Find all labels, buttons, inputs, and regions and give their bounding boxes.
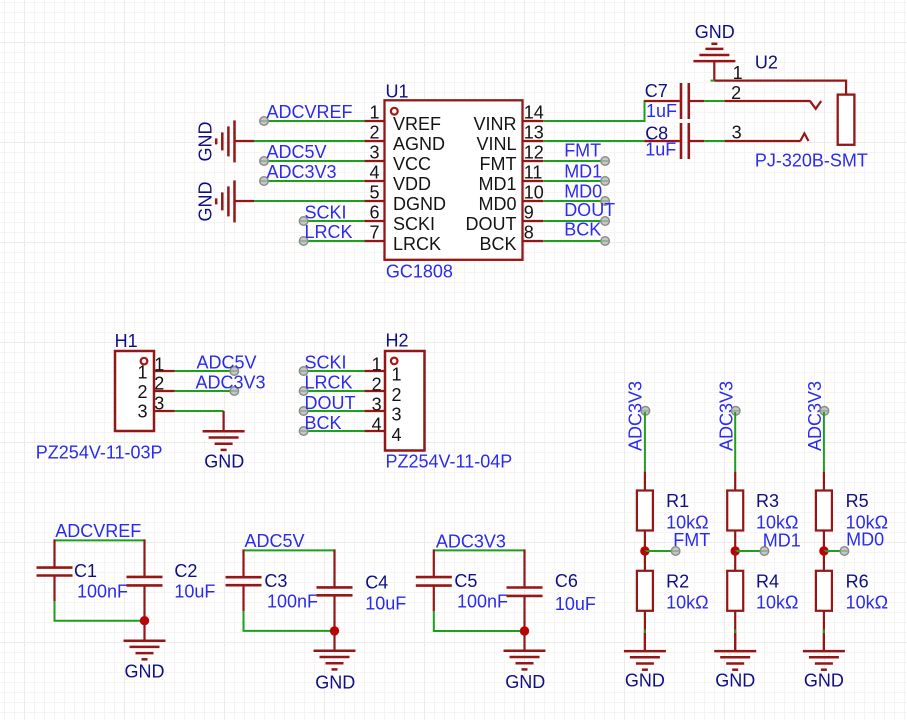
capacitor C4 [317, 549, 353, 631]
svg-text:3: 3 [369, 143, 379, 163]
svg-text:2: 2 [154, 374, 164, 394]
wire U1 pin 14 to C7 [543, 100, 644, 121]
svg-text:10kΩ: 10kΩ [756, 512, 798, 532]
net label MD0 (divider) [846, 530, 884, 550]
svg-text:MD1: MD1 [763, 530, 801, 550]
svg-text:GND: GND [804, 671, 844, 691]
svg-text:100nF: 100nF [77, 581, 128, 601]
U1 pin 6 SCKI [364, 203, 435, 234]
svg-text:2: 2 [372, 374, 382, 394]
resistor R1 [637, 472, 653, 551]
wire FMT tap [645, 550, 673, 552]
net label ADC3V3 (C5 group) [436, 532, 506, 552]
node dot MD0 tap [840, 547, 849, 556]
resistor R6 [816, 551, 832, 651]
svg-text:SCKI: SCKI [305, 202, 347, 222]
H2 pin 4 [364, 414, 385, 434]
header H1 body [115, 351, 154, 431]
svg-text:1uF: 1uF [646, 101, 677, 121]
svg-text:PZ254V-11-04P: PZ254V-11-04P [386, 452, 513, 472]
net label MD1 [564, 162, 602, 182]
wire segment R6 to GND [823, 630, 825, 634]
junction dot C5 group [520, 626, 529, 635]
value 100nF (C5) [457, 591, 508, 611]
wire LRCK to U1 pin 7 [304, 240, 365, 242]
svg-text:FMT: FMT [673, 530, 710, 550]
svg-text:C3: C3 [264, 571, 287, 591]
junction dot C1 group [140, 616, 149, 625]
H2 inside pin numbers [391, 364, 401, 445]
wire H1 pin 3 to GND [175, 410, 224, 412]
capacitor C2 [127, 539, 163, 620]
designator U2 [755, 53, 778, 73]
U1 pin 8 BCK [479, 223, 543, 254]
net label ADC5V (C3 group) [245, 531, 305, 551]
wire U1 pin 11 MD1 [543, 180, 601, 182]
svg-text:6: 6 [369, 203, 379, 223]
svg-text:ADCVREF: ADCVREF [55, 521, 141, 541]
svg-text:FMT: FMT [564, 141, 601, 161]
capacitor C3 [226, 549, 262, 611]
value 10k ohm (R4) [756, 592, 798, 612]
svg-text:10kΩ: 10kΩ [666, 592, 708, 612]
designator R2 [666, 571, 689, 591]
net label ADCVREF (C1 group) [55, 521, 141, 541]
value 10k ohm (R3) [756, 512, 798, 532]
wire ADC5V to U1 pin 3 [264, 160, 364, 162]
value GC1808 [386, 261, 453, 281]
svg-text:ADC5V: ADC5V [197, 353, 257, 373]
net label FMT [564, 141, 601, 161]
net label ADC3V3 [267, 162, 337, 182]
node dot ADC5V [260, 157, 269, 166]
svg-text:SCKI: SCKI [305, 353, 347, 373]
svg-text:GND: GND [196, 122, 216, 162]
net label MD1 (divider) [763, 530, 801, 550]
wire ADC3V3 to U1 pin 4 [264, 180, 364, 182]
net label ADC5V (H1) [197, 353, 257, 373]
svg-text:BCK: BCK [305, 413, 342, 433]
svg-text:ADC3V3: ADC3V3 [196, 373, 266, 393]
U1 pin 3 VCC [364, 143, 431, 174]
svg-text:1: 1 [733, 63, 743, 83]
net label ADC3V3 (R5 column, rotated) [805, 381, 825, 451]
node dot LRCK (H2) [299, 387, 308, 396]
node dot BCK [601, 237, 610, 246]
svg-text:1: 1 [391, 364, 401, 384]
svg-text:ADC3V3: ADC3V3 [436, 532, 506, 552]
svg-text:10kΩ: 10kΩ [756, 592, 798, 612]
wire ADC3V3 to R3 [734, 412, 736, 472]
svg-text:10: 10 [524, 183, 544, 203]
svg-text:VREF: VREF [393, 114, 441, 134]
node dot ADC3V3 (R3 column) [731, 407, 740, 416]
node dot ADC3V3 (R5 column) [820, 407, 829, 416]
svg-text:C6: C6 [555, 571, 578, 591]
svg-text:14: 14 [524, 103, 544, 123]
svg-text:13: 13 [524, 123, 544, 143]
designator C8 [645, 124, 668, 144]
node dot FMT tap [671, 547, 680, 556]
node dot ADC5V (H1) [230, 367, 239, 376]
node dot ADCVREF [260, 117, 269, 126]
capacitor C1 [37, 539, 73, 601]
svg-text:R2: R2 [666, 571, 689, 591]
H1 pin 3 [154, 393, 175, 413]
svg-text:3: 3 [154, 393, 164, 413]
designator U1 [386, 82, 409, 102]
designator C3 [264, 571, 287, 591]
svg-text:1: 1 [154, 354, 164, 374]
net label ADC3V3 (R3 column, rotated) [716, 381, 736, 451]
header H2 body [385, 351, 425, 451]
wire segment R2 to GND [644, 630, 646, 634]
audio jack U2 body [838, 95, 855, 145]
svg-text:ADC3V3: ADC3V3 [626, 381, 646, 451]
designator C2 [174, 561, 197, 581]
svg-text:BCK: BCK [564, 220, 601, 240]
svg-text:GND: GND [505, 672, 545, 692]
designator C7 [645, 81, 668, 101]
wire U1 pin 10 MD0 [543, 200, 601, 202]
designator C5 [454, 571, 477, 591]
net label ADC3V3 (H1) [196, 373, 266, 393]
svg-text:5: 5 [369, 183, 379, 203]
U1 pin 9 DOUT [466, 203, 544, 234]
node dot MD1 [601, 177, 610, 186]
designator R1 [666, 491, 689, 511]
svg-text:U2: U2 [755, 53, 778, 73]
svg-text:GND: GND [625, 671, 665, 691]
ground flag H1 [203, 411, 245, 472]
net label LRCK [305, 222, 353, 242]
H2 pin 1 indicator circle [391, 358, 398, 365]
svg-text:2: 2 [369, 123, 379, 143]
net label ADCVREF [267, 102, 353, 122]
node dot SCKI (H2) [299, 367, 308, 376]
svg-text:100nF: 100nF [267, 591, 318, 611]
svg-text:3: 3 [372, 394, 382, 414]
H1 inside pin numbers [137, 362, 147, 421]
net label BCK [564, 220, 601, 240]
svg-text:ADC3V3: ADC3V3 [805, 381, 825, 451]
svg-text:10uF: 10uF [555, 594, 596, 614]
net label LRCK (H2) [305, 373, 353, 393]
svg-text:LRCK: LRCK [393, 234, 441, 254]
svg-text:DGND: DGND [393, 194, 446, 214]
ground flag C1 group [124, 621, 166, 682]
net label SCKI [305, 202, 347, 222]
U1 pin 4 VDD [364, 163, 431, 194]
svg-text:FMT: FMT [480, 154, 517, 174]
svg-text:C5: C5 [454, 571, 477, 591]
svg-text:SCKI: SCKI [393, 214, 435, 234]
svg-text:DOUT: DOUT [564, 200, 615, 220]
svg-text:10uF: 10uF [174, 581, 215, 601]
svg-text:1: 1 [369, 103, 379, 123]
svg-text:LRCK: LRCK [305, 222, 353, 242]
node dot BCK (H2) [299, 427, 308, 436]
ground flag above U2 [693, 22, 735, 81]
svg-text:9: 9 [524, 203, 534, 223]
wire U1 pin 9 DOUT [543, 220, 601, 222]
wire C8 to U2 pin 3 [704, 140, 724, 142]
capacitor C8 [644, 123, 704, 159]
svg-text:7: 7 [369, 223, 379, 243]
net label BCK (H2) [305, 413, 342, 433]
svg-text:ADC3V3: ADC3V3 [716, 381, 736, 451]
svg-text:3: 3 [391, 405, 401, 425]
value 10k ohm (R2) [666, 592, 708, 612]
node dot MD1 tap [760, 547, 769, 556]
wire ADC3V3 to R5 [823, 412, 825, 472]
ground flag R4 [714, 633, 756, 691]
svg-text:LRCK: LRCK [305, 373, 353, 393]
value 10uF (C6) [555, 594, 596, 614]
wire U1 pin 12 FMT [543, 160, 601, 162]
value 100nF (C3) [267, 591, 318, 611]
svg-text:3: 3 [137, 402, 147, 422]
svg-text:2: 2 [391, 385, 401, 405]
svg-text:C2: C2 [174, 561, 197, 581]
audio jack U2 pin 1 lead [714, 63, 846, 95]
svg-text:GND: GND [204, 452, 244, 472]
pin 1 indicator circle [391, 108, 398, 115]
svg-text:VCC: VCC [393, 154, 431, 174]
capacitor C5 [416, 549, 452, 611]
svg-text:VINL: VINL [476, 134, 516, 154]
H2 pin 1 [364, 354, 385, 374]
resistor R2 [637, 551, 653, 651]
svg-text:1: 1 [372, 354, 382, 374]
wire ADC3V3 to R1 [644, 412, 646, 472]
svg-text:VINR: VINR [473, 114, 516, 134]
designator R6 [846, 571, 869, 591]
svg-text:1uF: 1uF [645, 140, 676, 160]
svg-text:GC1808: GC1808 [386, 261, 453, 281]
svg-text:R1: R1 [666, 491, 689, 511]
svg-text:C4: C4 [365, 572, 388, 592]
svg-text:GND: GND [196, 182, 216, 222]
svg-text:4: 4 [372, 414, 382, 434]
ground flag R6 [803, 633, 845, 691]
node dot MD0 [601, 197, 610, 206]
svg-text:GND: GND [125, 662, 165, 682]
resistor R4 [727, 551, 743, 651]
wire SCKI to U1 pin 6 [304, 220, 365, 222]
ground flag R2 [624, 633, 666, 691]
H2 pin 2 [364, 374, 385, 394]
U1 pin 7 LRCK [364, 223, 441, 254]
U1 pin 12 FMT [480, 143, 544, 174]
wire ADCVREF to U1 pin 1 [264, 120, 364, 122]
wire U1 pin 8 BCK [543, 240, 601, 242]
node dot LRCK [299, 237, 308, 246]
value PZ254V-11-03P [36, 443, 163, 463]
svg-text:2: 2 [137, 382, 147, 402]
wire GND to U1 pin 2 [252, 140, 364, 142]
value 10uF (C4) [365, 594, 406, 614]
value 10k ohm (R1) [666, 512, 708, 532]
node dot DOUT (H2) [299, 407, 308, 416]
ground flag at pin 5 [196, 180, 254, 222]
ground flag C5 group [504, 631, 546, 692]
junction dot R1-R2 [640, 546, 649, 555]
U1 pin 11 MD1 [478, 163, 543, 194]
svg-text:MD0: MD0 [846, 530, 884, 550]
wire H1 pin 2 ADC3V3 [175, 390, 232, 392]
node dot ADC3V3 (R1 column) [641, 407, 650, 416]
svg-text:PJ-320B-SMT: PJ-320B-SMT [755, 151, 868, 171]
U1 pin 2 AGND [364, 123, 445, 154]
node dot FMT [601, 157, 610, 166]
svg-text:4: 4 [391, 425, 401, 445]
svg-text:ADC5V: ADC5V [267, 142, 327, 162]
svg-text:BCK: BCK [479, 234, 516, 254]
svg-text:R3: R3 [756, 491, 779, 511]
wire U1 pin 13 to C8 [543, 140, 644, 142]
capacitor C7 [644, 83, 704, 119]
value 10uF (C2) [174, 581, 215, 601]
wire H2 pin 4 BCK [304, 430, 365, 432]
U1 pin 14 VINR [473, 103, 543, 134]
svg-text:12: 12 [524, 143, 544, 163]
svg-text:3: 3 [732, 123, 742, 143]
wire C7 to U2 pin 2 [704, 100, 724, 102]
wire H1 pin 1 ADC5V [175, 370, 232, 372]
wire ADCVREF top rail [55, 539, 145, 541]
ground flag at pin 2 [196, 120, 254, 162]
wire C3 to GND rail [244, 611, 335, 631]
node dot DOUT [601, 217, 610, 226]
designator R5 [846, 491, 869, 511]
designator R3 [756, 491, 779, 511]
svg-text:ADC3V3: ADC3V3 [267, 162, 337, 182]
svg-text:8: 8 [524, 223, 534, 243]
resistor R5 [816, 472, 832, 551]
capacitor C6 [507, 549, 543, 631]
wire ADC5V top rail [244, 549, 335, 551]
svg-text:VDD: VDD [393, 174, 431, 194]
svg-text:2: 2 [731, 83, 741, 103]
svg-text:H2: H2 [386, 331, 409, 351]
designator C6 [555, 571, 578, 591]
svg-text:MD1: MD1 [478, 174, 516, 194]
wire H2 pin 2 LRCK [304, 390, 365, 392]
junction dot C3 group [330, 626, 339, 635]
IC U1 body [385, 100, 523, 259]
U1 pin 13 VINL [476, 123, 543, 154]
wire MD0 tap [824, 550, 842, 552]
value 100nF (C1) [77, 581, 128, 601]
wire H2 pin 1 SCKI [304, 370, 365, 372]
wire C1 to GND rail [55, 601, 145, 620]
U1 pin 10 MD0 [478, 183, 543, 214]
svg-text:MD1: MD1 [564, 162, 602, 182]
designator C1 [74, 561, 97, 581]
audio jack U2 pin 3 lead with switch chevron [725, 123, 809, 143]
wire GND to U2 pin 1 [711, 80, 715, 82]
svg-text:100nF: 100nF [457, 591, 508, 611]
ground flag C3 group [314, 631, 356, 693]
svg-text:R5: R5 [846, 491, 869, 511]
wire H2 pin 3 DOUT [304, 410, 365, 412]
svg-text:ADCVREF: ADCVREF [267, 102, 353, 122]
svg-text:H1: H1 [115, 331, 138, 351]
wire MD1 tap [735, 550, 761, 552]
svg-text:PZ254V-11-03P: PZ254V-11-03P [36, 443, 163, 463]
svg-text:C7: C7 [645, 81, 668, 101]
net label MD0 [564, 182, 602, 202]
value PJ-320B-SMT [755, 151, 868, 171]
node dot ADC3V3 (H1) [230, 387, 239, 396]
H2 pin 3 [364, 394, 385, 414]
svg-text:R6: R6 [846, 571, 869, 591]
H1 pin 2 [154, 374, 175, 394]
resistor R3 [727, 472, 743, 551]
net label ADC5V [267, 142, 327, 162]
audio jack U2 pin 2 lead with switch chevron [725, 83, 822, 109]
value 1uF (C8) [645, 140, 676, 160]
node dot ADC3V3 [260, 177, 269, 186]
H1 pin 1 [154, 354, 175, 374]
svg-text:MD0: MD0 [564, 182, 602, 202]
svg-text:ADC5V: ADC5V [245, 531, 305, 551]
svg-text:AGND: AGND [393, 134, 445, 154]
U1 pin 1 VREF [364, 103, 441, 134]
svg-text:10kΩ: 10kΩ [846, 592, 888, 612]
svg-text:U1: U1 [386, 82, 409, 102]
designator H1 [115, 331, 138, 351]
wire segment R4 to GND [734, 630, 736, 634]
designator R4 [756, 571, 779, 591]
net label ADC3V3 (R1 column, rotated) [626, 381, 646, 451]
svg-text:R4: R4 [756, 571, 779, 591]
value 10k ohm (R6) [846, 592, 888, 612]
net label FMT (divider) [673, 530, 710, 550]
U1 pin 5 DGND [364, 183, 446, 214]
node dot SCKI [299, 217, 308, 226]
svg-text:DOUT: DOUT [466, 214, 517, 234]
wire C5 to GND rail [434, 611, 525, 631]
junction dot R3-R4 [731, 546, 740, 555]
svg-text:GND: GND [695, 22, 735, 42]
svg-text:4: 4 [369, 163, 379, 183]
designator H2 [386, 331, 409, 351]
value 10k ohm (R5) [846, 512, 888, 532]
svg-text:GND: GND [715, 671, 755, 691]
net label DOUT (H2) [305, 393, 356, 413]
svg-text:DOUT: DOUT [305, 393, 356, 413]
net label DOUT [564, 200, 615, 220]
wire GND to U1 pin 5 [252, 200, 364, 202]
svg-text:11: 11 [524, 163, 543, 183]
designator C4 [365, 572, 388, 592]
wire ADC3V3 top rail [434, 549, 525, 551]
svg-text:C1: C1 [74, 561, 97, 581]
junction dot R5-R6 [819, 546, 828, 555]
value 1uF (C7) [646, 101, 677, 121]
svg-text:GND: GND [315, 672, 355, 692]
svg-text:MD0: MD0 [478, 194, 516, 214]
svg-text:1: 1 [137, 362, 147, 382]
svg-text:10uF: 10uF [365, 594, 406, 614]
net label SCKI (H2) [305, 353, 347, 373]
H1 pin 1 indicator circle [141, 358, 148, 365]
value PZ254V-11-04P [386, 452, 513, 472]
